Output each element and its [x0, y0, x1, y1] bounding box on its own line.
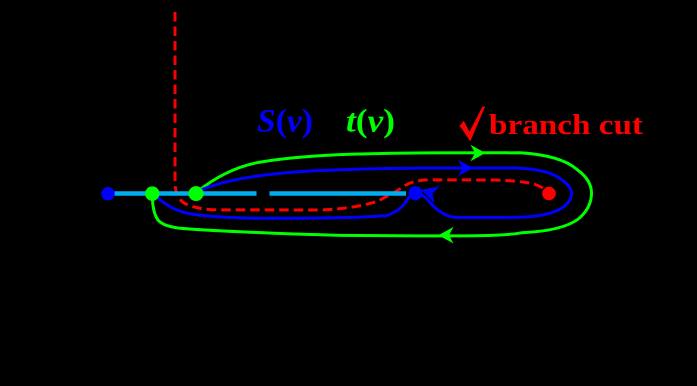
cyan cut line segment 2 [270, 191, 407, 196]
svg-text:S(v): S(v) [257, 104, 313, 140]
blue dot left (node) [101, 187, 114, 200]
blue contour S(v) [157, 168, 572, 218]
branch cut dashed red curve [175, 12, 546, 210]
green arrow right (top) [471, 145, 486, 162]
blue arrow right (top) [458, 160, 473, 177]
green dot 2 (node) [189, 186, 204, 201]
radical sign [459, 107, 485, 142]
green arrow left (bottom) [439, 227, 454, 244]
svg-text:branch cut: branch cut [489, 109, 643, 141]
green dot 1 (node) [145, 186, 159, 200]
red dot (node) [542, 187, 556, 201]
green contour t(v) [153, 153, 592, 236]
blue dot right (node) [409, 186, 423, 200]
blue arrow at right blue dot [419, 181, 440, 203]
svg-text:t(v): t(v) [346, 104, 395, 140]
cyan cut line segment 1 [115, 191, 257, 196]
